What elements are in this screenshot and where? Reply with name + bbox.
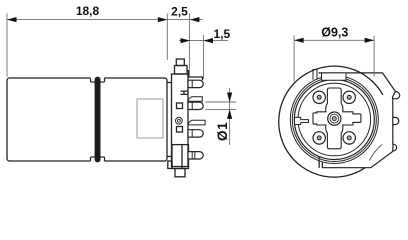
svg-text:18,8: 18,8 xyxy=(76,4,100,18)
svg-text:Ø9,3: Ø9,3 xyxy=(321,25,348,39)
svg-text:Ø1: Ø1 xyxy=(215,121,230,141)
svg-text:2,5: 2,5 xyxy=(171,4,188,18)
svg-text:1,5: 1,5 xyxy=(214,27,231,41)
